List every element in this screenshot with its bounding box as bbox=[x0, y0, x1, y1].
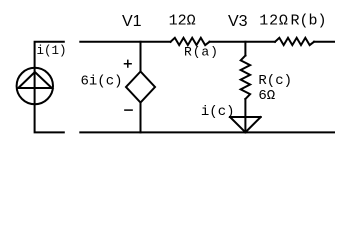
svg-text:6Ω: 6Ω bbox=[258, 88, 275, 104]
svg-text:R(c): R(c) bbox=[258, 73, 292, 89]
wire top from gap to R(a) bbox=[80, 41, 170, 43]
wire V1 branch lower lead bbox=[140, 103, 142, 133]
svg-text:12Ω: 12Ω bbox=[259, 13, 288, 30]
resistor R(a) zigzag bbox=[171, 38, 210, 45]
plus sign of dependent source bbox=[125, 60, 132, 67]
minus sign of dependent source bbox=[125, 109, 132, 111]
wire top right end bbox=[314, 41, 334, 43]
resistor R(b) zigzag bbox=[275, 38, 314, 45]
current source I1 arrow triangle bbox=[18, 72, 52, 88]
current arrow i(c) triangle bbox=[230, 117, 261, 132]
svg-text:6i(c): 6i(c) bbox=[81, 73, 123, 89]
svg-text:R(b): R(b) bbox=[291, 13, 327, 30]
svg-text:R(a): R(a) bbox=[184, 45, 219, 60]
dependent source diamond bbox=[126, 72, 155, 103]
wire V1 branch upper lead bbox=[140, 42, 142, 72]
svg-text:V1: V1 bbox=[122, 13, 142, 30]
svg-text:12Ω: 12Ω bbox=[169, 13, 196, 30]
wire V3 branch lower lead bbox=[244, 99, 246, 132]
svg-text:i(c): i(c) bbox=[201, 104, 235, 120]
svg-text:V3: V3 bbox=[228, 13, 248, 30]
wire top between R(a) and R(b) bbox=[210, 41, 276, 43]
wire left-branch (top stub, left vertical, bottom stub) bbox=[35, 42, 64, 133]
current source I1 circle bbox=[17, 68, 53, 104]
resistor R(c) vertical zigzag bbox=[241, 56, 250, 100]
wire bottom bbox=[80, 131, 334, 133]
svg-text:i(1): i(1) bbox=[37, 44, 67, 58]
wire V3 branch upper lead bbox=[244, 42, 246, 56]
